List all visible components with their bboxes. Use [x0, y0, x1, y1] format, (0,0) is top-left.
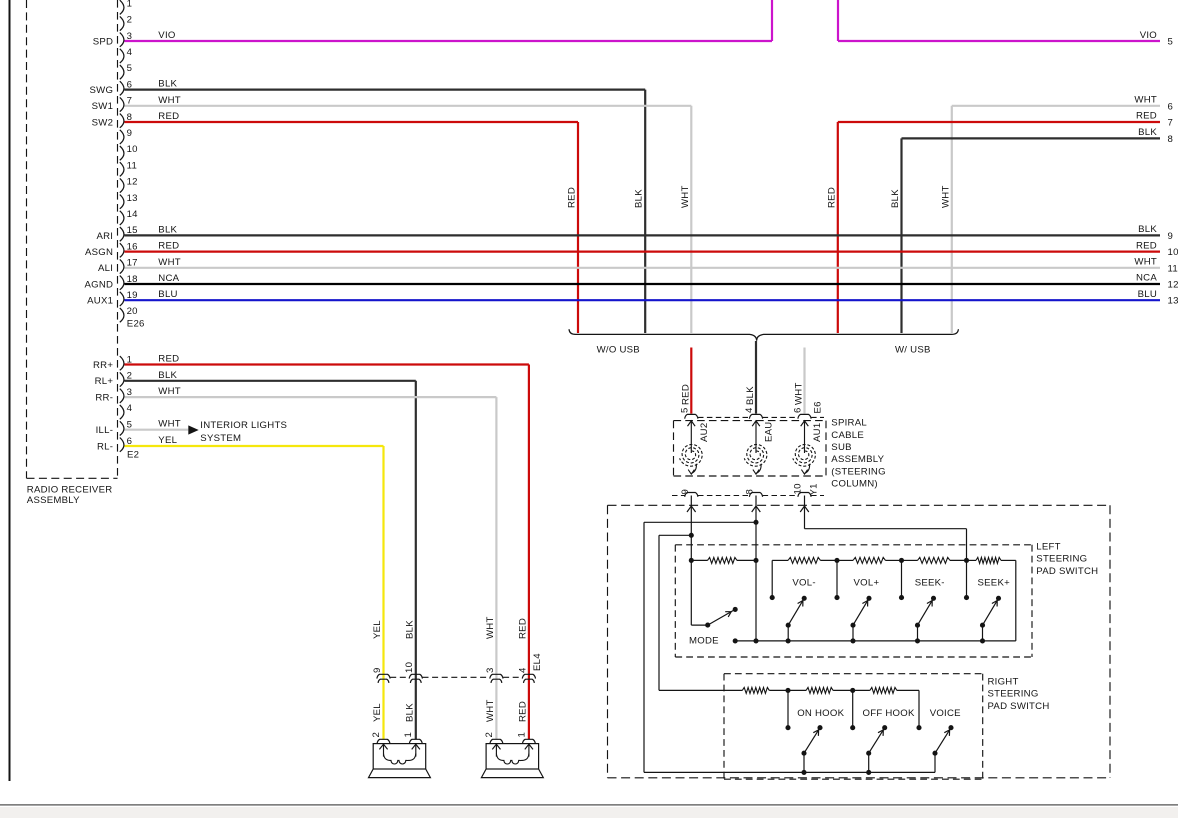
wire WHT from E2 pin 3 RR- [125, 386, 497, 739]
svg-text:SEEK+: SEEK+ [978, 578, 1011, 589]
svg-text:W/ USB: W/ USB [895, 344, 931, 355]
label RADIO RECEIVER ASSEMBLY [27, 485, 113, 506]
svg-text:STEERING: STEERING [1036, 554, 1087, 565]
svg-text:YEL: YEL [372, 620, 383, 639]
svg-text:COLUMN): COLUMN) [831, 479, 878, 490]
left steering pad switch dashed box [675, 545, 1032, 657]
wire VIO right segment to pin 5 [838, 0, 1173, 48]
connector E26 pin 17 [120, 258, 138, 274]
svg-text:2: 2 [371, 732, 382, 738]
connector E26 pin 20 [120, 306, 138, 322]
svg-text:SWG: SWG [90, 85, 114, 96]
wire BLU from E26 pin 19 to pin 13 [125, 289, 1178, 307]
svg-text:1: 1 [403, 732, 414, 738]
connector E26 pin 15 [120, 225, 138, 241]
connector E2 pin 4 [120, 403, 133, 419]
wire RED from E26 pin 16 to pin 10 [125, 240, 1178, 258]
svg-text:1: 1 [127, 0, 133, 9]
connector E26 pin 4 [120, 47, 133, 63]
svg-text:SPD: SPD [93, 36, 113, 47]
junction wire 9 branch [659, 533, 694, 691]
spiral cable coil AU2 [680, 421, 710, 474]
svg-text:AGND: AGND [84, 279, 113, 290]
wire WHT from E26 pin 17 to pin 11 [125, 257, 1178, 275]
svg-text:11: 11 [1168, 263, 1178, 274]
connector E26 pin 9 [120, 128, 132, 144]
svg-text:ON HOOK: ON HOOK [797, 708, 844, 719]
svg-text:SYSTEM: SYSTEM [200, 433, 241, 444]
svg-text:YEL: YEL [372, 703, 383, 722]
svg-text:BLK: BLK [158, 79, 177, 90]
svg-text:RED: RED [158, 241, 179, 252]
svg-text:9: 9 [127, 128, 133, 139]
svg-text:EAU: EAU [764, 422, 775, 442]
svg-text:CABLE: CABLE [831, 430, 864, 441]
switch VOICE [916, 690, 960, 772]
svg-text:NCA: NCA [158, 273, 179, 284]
right box bottom rail [644, 770, 935, 775]
connector E6 row [685, 414, 824, 418]
label LEFT STEERING PAD SWITCH [1036, 542, 1098, 577]
connector E26 pin 6 [120, 79, 132, 95]
svg-text:2: 2 [127, 15, 133, 26]
label SPIRAL CABLE SUB ASSEMBLY (STEERING COLUMN) [831, 418, 886, 490]
svg-text:4: 4 [127, 403, 133, 414]
connector E26 pin 3 [120, 31, 132, 47]
wire pin8 vertical through left box [755, 560, 757, 641]
svg-text:RED: RED [680, 384, 691, 405]
connector E2 pin 5 [120, 420, 132, 436]
svg-text:WHT: WHT [158, 386, 181, 397]
svg-text:NCA: NCA [1136, 273, 1157, 284]
wire BLK from E2 pin 2 RL+ [125, 370, 416, 740]
resistor R2 (VOL-) [772, 557, 839, 563]
spiral cable sub assembly dashed box [674, 421, 827, 476]
svg-text:RR-: RR- [95, 393, 113, 404]
svg-text:BLK: BLK [890, 189, 901, 208]
connector E26 pin 13 [120, 193, 138, 209]
switch SEEK- [899, 560, 945, 641]
svg-text:3: 3 [485, 667, 496, 673]
svg-text:ASSEMBLY: ASSEMBLY [831, 454, 884, 465]
wire RED from E26 pin 8 SW2 [125, 111, 579, 333]
wire WHT brace to E6 pin 6 [794, 348, 805, 414]
connector E26 pin 10 [120, 144, 138, 160]
rear speaker LH [369, 739, 431, 777]
resistor R1 (MODE) [689, 557, 759, 563]
diagram frame left edge [9, 0, 11, 781]
svg-text:OFF HOOK: OFF HOOK [863, 708, 915, 719]
wire YEL from E2 pin 6 RL- [125, 435, 384, 740]
svg-text:SW1: SW1 [92, 101, 114, 112]
svg-text:WHT: WHT [794, 382, 805, 405]
svg-text:BLK: BLK [745, 386, 756, 405]
svg-text:13: 13 [127, 193, 138, 204]
resistor R3 (VOL+) [837, 557, 904, 563]
switch VOL- [770, 560, 816, 641]
connector E26 pin 16 [120, 241, 138, 257]
switch VOL+ [834, 560, 879, 641]
svg-text:WHT: WHT [680, 185, 691, 208]
right steering pad switch dashed box [724, 674, 983, 780]
svg-text:MODE: MODE [689, 636, 719, 647]
connector E26 pin 2 [120, 15, 132, 31]
resistor R6 (ON HOOK feed) [659, 687, 791, 693]
switch MODE [689, 560, 738, 646]
svg-text:SUB: SUB [831, 442, 851, 453]
left box bottom rail [733, 638, 1016, 643]
svg-text:Y1: Y1 [809, 483, 820, 495]
switch ON HOOK [785, 690, 844, 772]
svg-text:VIO: VIO [1140, 30, 1157, 41]
wire BLK from E26 pin 6 SWG [125, 79, 646, 333]
svg-text:AUX1: AUX1 [87, 296, 113, 307]
connector E26 pin 5 [120, 63, 132, 79]
svg-text:SW2: SW2 [92, 117, 114, 128]
svg-text:RED: RED [158, 111, 179, 122]
svg-text:6: 6 [1168, 101, 1174, 112]
svg-text:BLU: BLU [158, 289, 177, 300]
svg-text:RR+: RR+ [93, 360, 113, 371]
svg-text:VIO: VIO [158, 30, 175, 41]
spiral cable coil AU1 [793, 421, 823, 474]
svg-text:9: 9 [372, 667, 383, 673]
svg-text:BLK: BLK [158, 370, 177, 381]
svg-text:WHT: WHT [1134, 95, 1157, 106]
svg-text:11: 11 [127, 160, 137, 171]
wire RED brace to E6 pin 5 [680, 348, 691, 414]
svg-text:WHT: WHT [940, 185, 951, 208]
connector Y1 row [672, 493, 824, 497]
svg-text:PAD SWITCH: PAD SWITCH [1036, 566, 1098, 577]
svg-text:WHT: WHT [158, 257, 181, 268]
resistor R7 (OFF HOOK) [788, 687, 855, 693]
svg-text:VOL+: VOL+ [854, 578, 880, 589]
svg-text:RL-: RL- [97, 441, 113, 452]
svg-text:E26: E26 [127, 319, 145, 330]
wire WHT from E26 pin 7 SW1 [125, 95, 692, 333]
svg-text:STEERING: STEERING [988, 689, 1039, 700]
svg-text:RED: RED [158, 354, 179, 365]
svg-text:1: 1 [516, 732, 527, 738]
svg-text:10: 10 [404, 662, 415, 673]
svg-text:VOL-: VOL- [792, 578, 815, 589]
svg-text:WHT: WHT [158, 419, 181, 430]
connector E2 pin 3 [120, 387, 132, 403]
svg-text:RED: RED [517, 701, 528, 722]
svg-text:LEFT: LEFT [1036, 542, 1060, 553]
svg-text:RED: RED [1136, 240, 1157, 251]
svg-text:BLK: BLK [1138, 127, 1157, 138]
steering pad switch assembly dashed box [608, 505, 1111, 778]
svg-text:ASSEMBLY: ASSEMBLY [27, 495, 80, 506]
radio receiver assembly dashed box [27, 0, 118, 478]
svg-text:9: 9 [1168, 231, 1174, 242]
svg-text:7: 7 [1168, 118, 1174, 129]
wire BLK from E26 pin 15 to pin 9 [125, 224, 1174, 242]
svg-text:AU1: AU1 [812, 423, 823, 442]
svg-text:ARI: ARI [96, 231, 113, 242]
wire RED from E2 pin 1 RR+ [125, 354, 529, 740]
svg-text:(STEERING: (STEERING [831, 466, 886, 477]
svg-text:AU2: AU2 [699, 423, 710, 442]
svg-text:RL+: RL+ [95, 376, 114, 387]
connector E2 pin 2 [120, 371, 132, 387]
connector E2 pin 6 [120, 436, 132, 452]
resistor R4 (SEEK-) [902, 557, 970, 563]
svg-text:8: 8 [745, 489, 756, 495]
connector E26 pin 7 [120, 96, 132, 112]
svg-text:14: 14 [127, 209, 139, 220]
label INTERIOR LIGHTS SYSTEM [200, 420, 287, 444]
svg-text:12: 12 [1168, 280, 1178, 291]
svg-text:BLK: BLK [158, 224, 177, 235]
svg-text:EL4: EL4 [532, 653, 543, 671]
wire BLK right segment to pin 8 [890, 127, 1173, 333]
connector E26 pin 14 [120, 209, 138, 225]
svg-text:VOICE: VOICE [930, 708, 961, 719]
svg-text:10: 10 [1168, 247, 1178, 258]
svg-text:WHT: WHT [485, 616, 496, 639]
interior lights system arrow [188, 425, 198, 434]
svg-text:BLK: BLK [1138, 224, 1157, 235]
svg-text:ASGN: ASGN [85, 247, 113, 258]
svg-text:BLK: BLK [634, 189, 645, 208]
svg-text:RED: RED [567, 187, 578, 208]
svg-text:RED: RED [1136, 111, 1157, 122]
connector E26 pin 8 [120, 112, 132, 128]
wire NCA from E26 pin 18 to pin 12 [125, 273, 1178, 291]
svg-text:PAD SWITCH: PAD SWITCH [988, 701, 1050, 712]
wire BLK brace to E6 pin 4 [745, 341, 756, 414]
connector E26 pin 11 [120, 160, 137, 176]
svg-text:E6: E6 [813, 401, 824, 413]
svg-text:SPIRAL: SPIRAL [831, 418, 867, 429]
svg-text:W/O USB: W/O USB [597, 344, 640, 355]
wire VIO from E26 pin 3 (left segment, exits top) [125, 0, 773, 41]
svg-text:RIGHT: RIGHT [988, 677, 1019, 688]
svg-text:4: 4 [517, 667, 528, 673]
svg-text:YEL: YEL [158, 435, 177, 446]
connector EL4 row [377, 674, 536, 683]
svg-text:SEEK-: SEEK- [915, 578, 945, 589]
svg-text:WHT: WHT [158, 95, 181, 106]
svg-text:BLU: BLU [1138, 289, 1157, 300]
switch OFF HOOK [850, 690, 915, 772]
junction wire 8 branch [644, 520, 759, 773]
connector E26 pin 19 [120, 290, 138, 306]
svg-text:2: 2 [484, 732, 495, 738]
svg-text:5: 5 [680, 407, 691, 413]
svg-text:BLK: BLK [404, 703, 415, 722]
svg-text:ALI: ALI [98, 263, 113, 274]
svg-text:RED: RED [826, 187, 837, 208]
svg-text:ILL-: ILL- [96, 425, 114, 436]
resistor R5 (SEEK+) [967, 557, 1016, 641]
svg-text:4: 4 [744, 407, 755, 413]
svg-text:5: 5 [127, 63, 133, 74]
switch SEEK+ [964, 560, 1010, 641]
wire Y1 pin 10 into assembly [800, 496, 966, 561]
svg-text:9: 9 [680, 489, 691, 495]
resistor R8 (VOICE) [853, 687, 919, 693]
svg-text:6: 6 [793, 407, 804, 413]
wire WHT from E2 pin 5 ILL- to interior lights [125, 419, 189, 430]
svg-text:WHT: WHT [485, 699, 496, 722]
svg-text:E2: E2 [127, 450, 139, 461]
svg-text:8: 8 [1168, 134, 1174, 145]
wire Y1 pin 9 into assembly (node to MODE rail) [687, 496, 696, 561]
svg-text:13: 13 [1168, 296, 1178, 307]
connector E26 pin 12 [120, 177, 138, 193]
bottom scrollbar bar [0, 807, 1178, 818]
svg-text:4: 4 [127, 47, 133, 58]
svg-text:BLK: BLK [404, 620, 415, 639]
svg-text:10: 10 [793, 483, 804, 494]
connector E2 pin 1 [120, 354, 132, 370]
wire WHT right segment to pin 6 [940, 95, 1173, 334]
label RIGHT STEERING PAD SWITCH [988, 677, 1050, 712]
brace W/O USB / W USB [569, 329, 958, 341]
wire Y1 pin 8 into assembly [752, 496, 761, 561]
svg-text:WHT: WHT [1134, 257, 1157, 268]
svg-text:RED: RED [517, 618, 528, 639]
svg-text:12: 12 [127, 177, 138, 188]
connector E26 pin 1 [120, 0, 132, 14]
svg-text:20: 20 [127, 306, 138, 317]
connector E26 pin 18 [120, 274, 138, 290]
svg-text:10: 10 [127, 144, 138, 155]
wire RED right segment to pin 7 [826, 111, 1173, 333]
spiral cable coil EAU [744, 421, 774, 474]
rear speaker RH [481, 739, 543, 777]
svg-text:INTERIOR LIGHTS: INTERIOR LIGHTS [200, 420, 287, 431]
svg-text:5: 5 [1168, 37, 1174, 48]
bottom scrollbar groove line [0, 804, 1178, 806]
